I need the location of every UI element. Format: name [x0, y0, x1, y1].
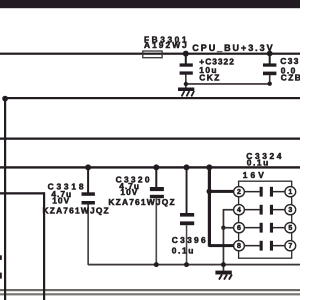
- svg-text:1: 1: [288, 189, 292, 196]
- svg-text:3: 3: [288, 207, 292, 214]
- svg-text:KZA761WJQZ: KZA761WJQZ: [108, 197, 175, 207]
- svg-text:7: 7: [288, 243, 292, 250]
- svg-text:2: 2: [237, 189, 241, 196]
- svg-text:10V: 10V: [120, 187, 138, 197]
- svg-text:A192WJ: A192WJ: [144, 40, 189, 50]
- svg-text:6: 6: [237, 225, 241, 232]
- svg-text:KZA761WJQZ: KZA761WJQZ: [43, 205, 110, 215]
- svg-text:16V: 16V: [243, 170, 267, 180]
- svg-text:C3396: C3396: [172, 235, 208, 245]
- svg-text:0.1u: 0.1u: [172, 245, 195, 255]
- svg-text:CZB: CZB: [281, 73, 300, 83]
- svg-text:10V: 10V: [52, 196, 70, 206]
- svg-text:CPU_BU+3.3V: CPU_BU+3.3V: [192, 43, 274, 53]
- svg-text:0.1u: 0.1u: [247, 157, 270, 167]
- svg-text:5: 5: [288, 225, 292, 232]
- svg-text:4: 4: [237, 207, 241, 214]
- svg-text:CKZ: CKZ: [199, 72, 220, 82]
- svg-text:8: 8: [237, 243, 241, 250]
